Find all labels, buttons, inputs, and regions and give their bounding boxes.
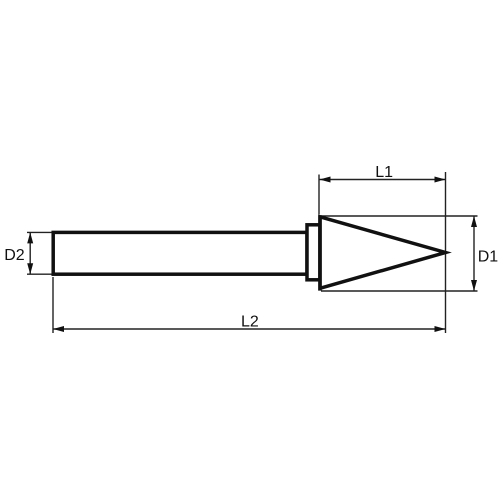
svg-text:L2: L2 — [241, 313, 259, 330]
svg-text:L1: L1 — [375, 164, 393, 181]
svg-text:D2: D2 — [4, 247, 25, 264]
svg-text:D1: D1 — [478, 249, 499, 266]
